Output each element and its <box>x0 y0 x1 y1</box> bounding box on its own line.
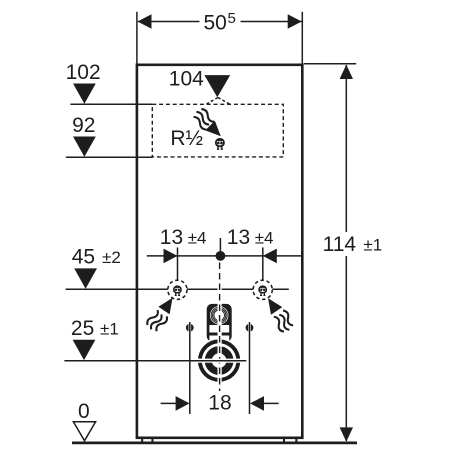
side bolt right <box>246 322 254 414</box>
level marker 45 +-2 <box>66 245 289 289</box>
svg-text:0: 0 <box>78 400 90 423</box>
svg-text:R½: R½ <box>170 127 203 150</box>
dimension 18 bottom <box>161 391 279 414</box>
left dashed circle (water connection) <box>168 280 187 299</box>
svg-text:25: 25 <box>71 317 94 340</box>
squiggly arrow right <box>262 294 296 334</box>
svg-text:50: 50 <box>204 11 227 34</box>
svg-text:92: 92 <box>72 114 95 137</box>
level marker 0 (open triangle) <box>73 400 95 441</box>
right foot <box>283 439 285 443</box>
svg-text:104: 104 <box>169 68 204 91</box>
svg-text:±2: ±2 <box>102 248 121 267</box>
dimension 13 +-4 / 13 +-4 <box>147 226 301 280</box>
svg-text:114: 114 <box>323 233 357 256</box>
panel outline (sanitary module front view) <box>137 65 302 438</box>
dashed region box (water supply zone) <box>152 104 283 157</box>
outlet holder (flush bend) <box>207 304 232 342</box>
svg-text:13: 13 <box>227 226 250 249</box>
svg-text:13: 13 <box>160 226 183 249</box>
level marker 102 <box>66 61 153 105</box>
level marker 25 +-1 <box>64 317 246 361</box>
level marker 92 <box>66 114 153 157</box>
svg-text:102: 102 <box>66 61 101 84</box>
svg-text:5: 5 <box>228 10 236 27</box>
svg-text:±1: ±1 <box>363 236 382 255</box>
left foot <box>141 439 143 443</box>
side bolt left <box>186 322 194 414</box>
svg-text:±1: ±1 <box>100 320 119 339</box>
ground line <box>72 442 357 445</box>
svg-text:45: 45 <box>72 245 95 268</box>
svg-text:18: 18 <box>208 391 231 414</box>
vertical center line (dashed with white casing) <box>218 263 222 392</box>
squiggly arrow left <box>145 293 179 333</box>
marker 104 with dashed V pointer <box>169 68 230 105</box>
dimension 50.5 top <box>137 10 302 63</box>
outlet drain circle <box>198 339 240 381</box>
tap icon (water supply) <box>216 139 224 149</box>
svg-text:±4: ±4 <box>188 229 207 248</box>
svg-text:±4: ±4 <box>255 229 274 248</box>
squiggly arrow to water supply <box>191 107 226 142</box>
dimension 114 +-1 right <box>304 64 382 442</box>
right dashed circle (water connection) <box>253 280 272 299</box>
